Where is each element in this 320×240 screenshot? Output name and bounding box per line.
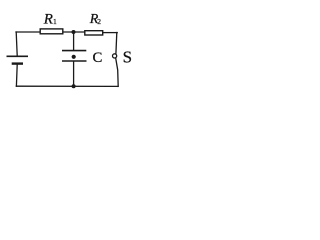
wire right lower: [116, 58, 119, 86]
capacitor C bottom plate: [62, 60, 87, 62]
wire bottom: [16, 85, 118, 87]
dot between capacitor plates: [72, 55, 76, 59]
svg-text:1: 1: [53, 17, 57, 26]
switch S contact circle: [113, 54, 117, 58]
svg-text:C: C: [93, 50, 103, 66]
wire top middle: [64, 31, 85, 33]
svg-text:S: S: [123, 47, 132, 66]
wire capacitor top stub: [73, 32, 75, 50]
wire left: [16, 32, 17, 56]
svg-text:R: R: [43, 12, 53, 28]
battery long plate: [7, 55, 29, 57]
resistor R1: [40, 29, 63, 34]
junction node bottom of capacitor branch: [72, 84, 76, 88]
capacitor C top plate: [62, 50, 86, 52]
resistor R2: [85, 31, 103, 35]
battery short plate: [12, 62, 23, 64]
junction node top of capacitor branch: [72, 30, 76, 34]
wire top: [16, 31, 40, 33]
wire capacitor bottom stub: [73, 61, 75, 86]
svg-text:2: 2: [97, 17, 101, 26]
wire top right: [104, 32, 118, 34]
wire left lower: [15, 65, 18, 87]
wire right upper: [115, 33, 118, 55]
